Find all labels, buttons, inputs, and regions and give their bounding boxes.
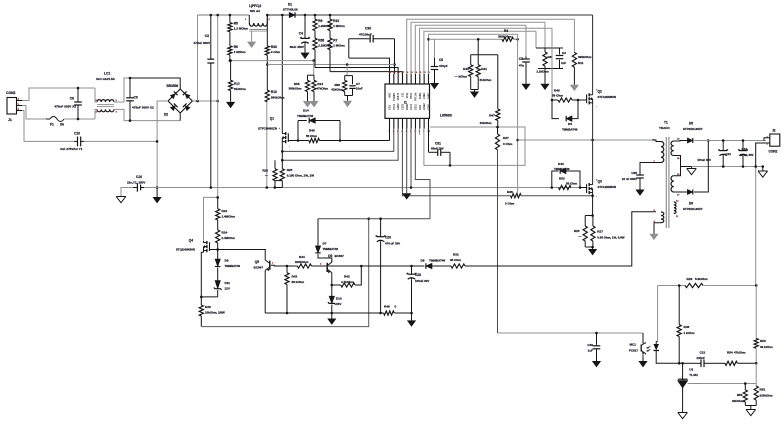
- svg-text:R22: R22: [222, 209, 228, 213]
- wire line y140 to transformer: [518, 139, 656, 141]
- ground arrow R12: [226, 102, 235, 108]
- resistor R6 1 MOhm: [228, 46, 232, 55]
- svg-text:STPS10L60FP: STPS10L60FP: [683, 127, 703, 131]
- wire startup feed vertical: [217, 15, 219, 197]
- earth ground R50 R51: [750, 406, 752, 410]
- svg-text:61kOhm: 61kOhm: [234, 87, 246, 91]
- svg-text:12V: 12V: [225, 287, 230, 291]
- wire aux line through to C28: [328, 265, 411, 267]
- svg-text:TMMBAT46: TMMBAT46: [225, 264, 241, 268]
- capacitor C40 1uF: [596, 333, 598, 344]
- svg-text:R37: R37: [503, 136, 509, 140]
- svg-text:TMMBAT46: TMMBAT46: [297, 114, 313, 118]
- wire Q2 gate feed: [551, 28, 553, 100]
- svg-text:BR3508: BR3508: [167, 84, 179, 88]
- svg-text:470uF 35V: 470uF 35V: [697, 158, 711, 162]
- svg-text:TRAFO: TRAFO: [659, 126, 670, 130]
- svg-text:R46: R46: [554, 89, 560, 93]
- svg-text:R20: R20: [262, 169, 268, 173]
- svg-text:620 uH: 620 uH: [250, 9, 260, 13]
- resistor R4 390kOhm: [502, 37, 514, 41]
- wire opto anode feed: [657, 286, 659, 342]
- svg-text:R38: R38: [507, 190, 513, 194]
- ground arrow bridge DC-: [156, 188, 158, 198]
- svg-text:L6563S: L6563S: [440, 114, 453, 118]
- resistor R24 2.4MOhm: [216, 230, 220, 243]
- svg-text:68nF 16V: 68nF 16V: [431, 147, 444, 151]
- svg-text:4.7kOhm: 4.7kOhm: [341, 280, 354, 284]
- ground arrow R8 C2: [544, 69, 546, 84]
- capacitor C28 100uF 30V: [411, 266, 413, 272]
- svg-text:COMP1: COMP1: [393, 92, 396, 101]
- capacitor C13 68uF 35V: [742, 141, 744, 149]
- svg-text:INV1: INV1: [389, 92, 392, 98]
- svg-text:56 Ohm: 56 Ohm: [552, 94, 563, 98]
- svg-text:C12: C12: [726, 152, 732, 156]
- svg-text:47n: 47n: [519, 64, 524, 68]
- svg-text:380kOhm: 380kOhm: [288, 87, 301, 91]
- resistor R41 61kOhm: [477, 55, 479, 65]
- svg-text:GND2: GND2: [397, 103, 400, 110]
- resistor R28 10kOhm 1/8W: [199, 305, 203, 316]
- svg-text:620kOhm: 620kOhm: [295, 260, 309, 264]
- svg-text:Q4: Q4: [189, 239, 193, 243]
- svg-text:0 Ohm: 0 Ohm: [503, 142, 513, 146]
- transistor Q5 BC847: [269, 261, 271, 270]
- svg-text:61kOhm: 61kOhm: [331, 88, 343, 92]
- svg-text:-: -: [596, 104, 597, 108]
- svg-text:1nF: 1nF: [561, 61, 566, 65]
- svg-text:C7: C7: [356, 82, 360, 86]
- svg-text:0.180 Ohm, 1%, 1W: 0.180 Ohm, 1%, 1W: [287, 174, 315, 178]
- svg-text:CON2: CON2: [769, 150, 778, 154]
- resistor R50 62kOhm: [744, 384, 746, 391]
- wire bottom rail lower-left: [201, 219, 368, 327]
- wire divider line y64 gray: [267, 64, 394, 66]
- ground arrow R40 R41: [471, 89, 479, 91]
- svg-text:R9: R9: [318, 19, 322, 23]
- svg-text:C21: C21: [700, 351, 706, 355]
- wire divider line y67: [314, 50, 316, 68]
- wire C16 to earth: [121, 188, 133, 197]
- svg-text:C16: C16: [136, 175, 142, 179]
- resistor R47 61kOhm: [497, 55, 499, 109]
- resistor R29 5.6kOhm: [685, 283, 703, 287]
- svg-text:1.2 MOhm: 1.2 MOhm: [234, 27, 249, 31]
- zener D10 15V: [329, 296, 334, 303]
- svg-text:CFX1: CFX1: [410, 103, 413, 110]
- svg-text:47kOhm: 47kOhm: [734, 351, 746, 355]
- earth ground C16: [116, 197, 126, 203]
- wire Q1 source sense line: [282, 129, 394, 152]
- wire Q4 gate node line: [210, 249, 266, 251]
- wire fuse to choke bottom: [78, 118, 95, 120]
- wire gate drive line to Q1: [389, 129, 391, 141]
- wire IC pin to lower block: [415, 129, 430, 219]
- resistor R51 620kOhm: [755, 363, 757, 386]
- svg-text:TMMBAT46: TMMBAT46: [562, 127, 578, 131]
- svg-text:D7: D7: [323, 242, 327, 246]
- wire R4 line y39: [427, 38, 430, 41]
- capacitor C3 475nF 630V: [210, 15, 212, 59]
- svg-text:1 kOhm: 1 kOhm: [684, 331, 695, 335]
- svg-text:15V: 15V: [336, 302, 341, 306]
- svg-text:D6: D6: [689, 202, 693, 206]
- svg-text:F1: F1: [50, 123, 54, 127]
- ground arrow output: [762, 165, 765, 168]
- svg-text:R11: R11: [578, 61, 584, 65]
- svg-text:62kOhm: 62kOhm: [732, 399, 744, 403]
- resistor R26: [585, 215, 592, 217]
- wire IC pin stub: [419, 129, 421, 136]
- connector J2 CON2 output: [770, 134, 780, 146]
- svg-text:56 Ohm: 56 Ohm: [306, 134, 317, 138]
- wire J1 pin2 to top rail: [22, 88, 95, 101]
- resistor R55 380kOhm: [312, 59, 315, 62]
- resistor R27 0.68 Ohm 1% 0.6W: [592, 216, 594, 227]
- svg-text:R10: R10: [333, 19, 339, 23]
- wire startup chain to Q4 drain: [204, 197, 218, 240]
- svg-text:STPS10L60FP: STPS10L60FP: [683, 207, 703, 211]
- wire choke right bottom: [114, 109, 180, 120]
- wire Q5 base to feedback line: [271, 264, 287, 267]
- wire feedback top line y285: [658, 285, 685, 287]
- svg-text:GND1: GND1: [427, 92, 430, 99]
- wire aux feedback line y266: [287, 265, 297, 267]
- svg-text:R14: R14: [317, 82, 323, 86]
- svg-text:TMMBAT46: TMMBAT46: [554, 167, 570, 171]
- wire bridge AC bottom riser: [179, 113, 181, 121]
- capacitor C16 22n Y1 250V: [136, 183, 138, 191]
- svg-text:L(PFC)1: L(PFC)1: [249, 4, 261, 8]
- capacitor C10 4nF 275VAC Y1: [77, 137, 79, 147]
- svg-text:R7: R7: [333, 39, 337, 43]
- svg-text:R45: R45: [309, 129, 315, 133]
- svg-text:R12: R12: [234, 82, 240, 86]
- wire CS long vertical x517: [517, 34, 519, 195]
- wire Q4 source vertical: [201, 252, 203, 305]
- wire comp line y58: [349, 58, 390, 74]
- wire choke left top: [95, 88, 97, 102]
- resistor R48 1 kOhm: [678, 286, 680, 325]
- wire Q5 collector: [264, 250, 266, 259]
- svg-text:CON2: CON2: [6, 91, 16, 95]
- resistor R13 560kOhm: [266, 65, 268, 91]
- svg-text:C10: C10: [74, 132, 80, 136]
- ground arrow C4: [300, 53, 309, 59]
- svg-text:C6: C6: [439, 58, 443, 62]
- svg-text:68 uF, 35V: 68 uF, 35V: [740, 153, 754, 157]
- wire primary top lead: [652, 140, 661, 142]
- resistor R46 56 Ohm: [552, 99, 558, 101]
- wire line A y313: [265, 312, 383, 314]
- svg-text:J1: J1: [8, 118, 12, 122]
- diode D14 TMMBAT46: [297, 121, 299, 141]
- svg-text:10kOhm, 1/8W: 10kOhm, 1/8W: [205, 311, 225, 315]
- svg-text:-: -: [289, 145, 290, 149]
- resistor R37 0 Ohm: [497, 127, 499, 134]
- resistor R45 56 Ohm: [298, 140, 309, 142]
- svg-text:R47: R47: [489, 114, 495, 118]
- wire R50 R51 join: [745, 405, 756, 407]
- resistor R56 2.2MOhm: [313, 38, 317, 50]
- svg-text:MULT1: MULT1: [397, 92, 400, 100]
- svg-text:R49: R49: [384, 305, 390, 309]
- svg-text:LINE1: LINE1: [423, 92, 426, 99]
- ground arrow R55: [303, 101, 312, 107]
- resistor R7 1 MOhm: [328, 38, 332, 50]
- svg-text:R40: R40: [463, 67, 469, 71]
- svg-text:4nF 275VAC Y1: 4nF 275VAC Y1: [60, 147, 83, 151]
- svg-text:0 Ohm: 0 Ohm: [271, 50, 281, 54]
- wire Q3 gate stub: [580, 187, 587, 189]
- svg-text:C30: C30: [365, 27, 371, 31]
- svg-text:390kOhm: 390kOhm: [578, 55, 592, 59]
- ground arrow center tap: [691, 167, 693, 169]
- wire TL431 cathode line: [679, 362, 693, 364]
- svg-text:620kOhm: 620kOhm: [760, 394, 773, 398]
- transistor Q6 BC847: [326, 263, 328, 272]
- resistor R5 1.2 MOhm: [229, 15, 231, 23]
- resistor R8 2.2kOhm with capacitor C2 1nF: [544, 22, 546, 48]
- resistor R43 68 kOhm: [286, 266, 288, 273]
- svg-text:STTH3L06: STTH3L06: [283, 8, 298, 12]
- svg-text:C40: C40: [587, 343, 593, 347]
- svg-text:C8: C8: [70, 97, 74, 101]
- wire divider line y60: [230, 60, 314, 62]
- wire output positive rail: [694, 140, 766, 142]
- resistor R9 1.2MOhm: [314, 15, 316, 19]
- svg-text:R41: R41: [481, 67, 487, 71]
- wire Q1 gate line with R45: [288, 140, 298, 142]
- wire R13 bottom to ground line: [266, 102, 268, 188]
- resistor R10 1 MOhm: [329, 15, 331, 19]
- svg-text:100uF 30V: 100uF 30V: [415, 279, 429, 283]
- resistor R54 47kOhm: [712, 362, 725, 364]
- capacitor C30 47/100nF: [349, 38, 370, 40]
- wire top line lower block y218: [318, 218, 430, 220]
- resistor R11 390kOhm: [573, 19, 575, 52]
- diode D5 STPS10L60FP: [687, 138, 692, 143]
- svg-text:Q1: Q1: [270, 117, 274, 121]
- svg-text:R33: R33: [271, 45, 277, 49]
- wire C30 right leg to pin: [394, 39, 396, 74]
- svg-text:R26: R26: [574, 229, 580, 233]
- ground arrow aux winding: [649, 234, 658, 240]
- resistor R38 0 Ohm: [511, 194, 522, 198]
- resistor R44 620kOhm: [297, 264, 311, 268]
- fuse F1: [46, 118, 50, 120]
- svg-text:TMMBAT46: TMMBAT46: [429, 259, 445, 263]
- zener D11 12V: [215, 281, 220, 289]
- svg-text:MC1: MC1: [629, 343, 636, 347]
- svg-text:D10: D10: [336, 297, 342, 301]
- wire J1 pin1 to fuse rail: [22, 106, 46, 120]
- earth ground TL431: [678, 413, 688, 419]
- ground arrow C17: [635, 190, 644, 196]
- svg-text:PFCOK: PFCOK: [414, 92, 417, 101]
- capacitor C6 470pF: [434, 39, 436, 58]
- svg-text:STFC8N80ZN: STFC8N80ZN: [258, 127, 277, 131]
- wire Q5 emitter to line A: [264, 272, 266, 313]
- svg-text:220nF: 220nF: [697, 356, 706, 360]
- svg-text:R42: R42: [344, 275, 350, 279]
- wire HV rectified rail: [198, 14, 250, 16]
- wire bridge DC+ to bulk node: [192, 100, 217, 102]
- svg-text:47/100nF: 47/100nF: [359, 33, 372, 37]
- svg-text:T1: T1: [664, 121, 668, 125]
- capacitor C31 68nF 16V: [428, 129, 430, 153]
- svg-text:2.2kOhm: 2.2kOhm: [537, 70, 550, 74]
- svg-text:470pF: 470pF: [439, 64, 448, 68]
- wire half-bridge midpoint: [592, 104, 594, 183]
- resistor R49 0: [384, 311, 395, 315]
- wire R40 R41 feed from R4 line: [477, 38, 480, 41]
- capacitor C5 47n: [525, 25, 527, 56]
- ground arrow C40: [592, 361, 601, 367]
- svg-text:R28: R28: [205, 305, 211, 309]
- transistor Q3 STF12NM50N: [588, 183, 590, 186]
- wire Q3 source to sense resistors: [592, 194, 594, 215]
- resistor R32 36 Ohm: [451, 264, 465, 268]
- resistor R52 56 Ohm: [559, 185, 572, 189]
- wire choke left bottom: [95, 109, 97, 119]
- wire bus line y34.3: [429, 34, 518, 74]
- wire output to feedback divider: [755, 167, 757, 286]
- wire aux winding bottom: [654, 223, 661, 234]
- svg-text:1 MOhm: 1 MOhm: [333, 24, 345, 28]
- wire secondary center tap: [674, 156, 681, 176]
- svg-text:R4: R4: [504, 29, 508, 33]
- svg-text:R5: R5: [234, 22, 238, 26]
- svg-text:1 MOhm: 1 MOhm: [234, 50, 246, 54]
- wire Q1 drain riser: [281, 15, 283, 132]
- wire C30 left leg: [348, 39, 350, 58]
- bridge rectifier D2 BR3508: [168, 89, 192, 113]
- wire bridge DC- to ground: [157, 101, 168, 188]
- svg-text:STF12NM50N: STF12NM50N: [598, 185, 616, 189]
- wire CS pin to sense node: [282, 129, 398, 161]
- diode D6 STPS10L60FP: [687, 190, 692, 195]
- svg-text:R55: R55: [294, 82, 300, 86]
- svg-text:61kOhm: 61kOhm: [480, 121, 492, 125]
- wire soft start line y163: [424, 127, 525, 165]
- capacitor C9 475nF 305V X2: [129, 78, 131, 98]
- svg-text:C9: C9: [134, 96, 138, 100]
- wire bus line y19.3: [407, 19, 575, 74]
- svg-text:VFF1: VFF1: [406, 92, 409, 99]
- svg-text:Q5: Q5: [255, 260, 259, 264]
- wire bus line y25.3: [415, 25, 526, 74]
- transistor Q1 STFC8N80ZN: [285, 132, 287, 135]
- svg-text:C4: C4: [299, 32, 303, 36]
- svg-text:RUN1: RUN1: [419, 92, 422, 99]
- wire Q1 source to sense: [281, 143, 283, 169]
- resistor R14 47kOhm: [313, 74, 315, 76]
- svg-text:STQ1HNK60R: STQ1HNK60R: [176, 248, 196, 252]
- svg-text:D2: D2: [164, 113, 168, 117]
- svg-text:C35: C35: [631, 171, 637, 175]
- svg-text:390kOhm: 390kOhm: [498, 34, 512, 38]
- ground arrow C6: [430, 83, 439, 89]
- svg-text:D14: D14: [303, 109, 309, 113]
- svg-text:BC847: BC847: [335, 254, 345, 258]
- svg-text:5.6kOhm: 5.6kOhm: [695, 277, 708, 281]
- svg-text:Q6: Q6: [328, 254, 332, 258]
- svg-text:R13: R13: [271, 90, 277, 94]
- svg-text:D11: D11: [225, 281, 231, 285]
- svg-text:47kOhm: 47kOhm: [317, 87, 329, 91]
- svg-text:R32: R32: [453, 253, 459, 257]
- wire DC+ riser to HV rail: [197, 15, 199, 101]
- svg-text:TBO1: TBO1: [410, 92, 413, 99]
- ground arrow PFC aux winding: [251, 31, 253, 41]
- svg-text:R29: R29: [687, 277, 693, 281]
- ground arrow R27: [592, 247, 594, 249]
- ground arrow R58 C7: [347, 96, 349, 101]
- svg-text:2.4MOhm: 2.4MOhm: [222, 215, 236, 219]
- svg-text:3A: 3A: [60, 123, 65, 127]
- resistor R53 39 kOhm: [755, 286, 757, 339]
- diode D43 TMMBAT46 gate loop: [552, 171, 559, 188]
- svg-text:I1: I1: [404, 101, 407, 105]
- svg-text:C3: C3: [205, 34, 209, 38]
- svg-text:R51: R51: [760, 388, 766, 392]
- wire choke right top to cap C9: [114, 78, 130, 102]
- wire Q6 emitter node: [331, 274, 333, 296]
- svg-text:R27: R27: [597, 230, 603, 234]
- shunt regulator IC2 TL431: [682, 363, 684, 380]
- capacitor C17 22nF 630V resonant: [639, 171, 641, 175]
- svg-text:R8: R8: [548, 55, 552, 59]
- svg-text:CTRL: CTRL: [427, 103, 430, 110]
- svg-text:LINE2: LINE2: [423, 103, 426, 110]
- wire bus line y31.3: [424, 31, 536, 74]
- ground arrow R11: [570, 85, 579, 91]
- svg-text:R24: R24: [222, 231, 228, 235]
- wire output return rail: [692, 166, 764, 168]
- capacitor C12 470uF 35V: [722, 141, 724, 149]
- wire TL431 anode: [682, 388, 684, 412]
- wire C10 to bridge DC- node: [84, 140, 157, 142]
- svg-text:R43: R43: [292, 275, 298, 279]
- ground arrow C5: [521, 84, 530, 90]
- svg-text:TMMBAT46: TMMBAT46: [323, 247, 339, 251]
- svg-text:-: -: [596, 194, 597, 198]
- svg-text:D5: D5: [689, 122, 693, 126]
- svg-text:CS1: CS1: [401, 92, 404, 97]
- svg-text:68 kOhm: 68 kOhm: [292, 280, 305, 284]
- resistor R42 4.7kOhm: [332, 284, 341, 286]
- resistor R40 kOhm: [470, 55, 472, 65]
- svg-text:R6: R6: [234, 45, 238, 49]
- svg-text:D1: D1: [288, 3, 292, 7]
- svg-text:R54: R54: [727, 351, 733, 355]
- resistor R22 2.4MOhm: [217, 197, 219, 208]
- wire bus line y22.3: [411, 22, 545, 74]
- svg-text:475nF 305V X2: 475nF 305V X2: [54, 105, 76, 109]
- svg-text:0.68 Ohm, 1%, 0.6W: 0.68 Ohm, 1%, 0.6W: [597, 236, 624, 240]
- diode D3 TMMBAT46: [552, 100, 559, 119]
- capacitor C20 470uF 30V: [380, 219, 382, 235]
- connector J1 CON2: [7, 98, 17, 115]
- capacitor C7 10nF: [352, 76, 354, 85]
- svg-text:R48: R48: [684, 325, 690, 329]
- wire HV rail to Q2 drain: [592, 15, 594, 93]
- wire opto LED cathode to TL431: [656, 354, 679, 363]
- svg-text:22n,Y1, 250V: 22n,Y1, 250V: [127, 180, 145, 184]
- op-amp controller U1 L6563S: [385, 84, 430, 118]
